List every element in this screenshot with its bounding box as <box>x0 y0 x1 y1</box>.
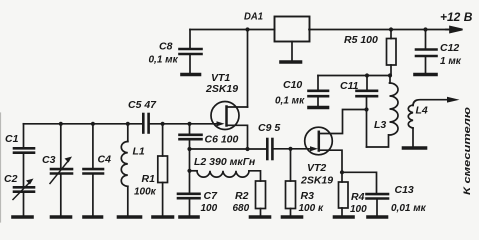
trimmer capacitor C3 <box>50 124 72 215</box>
ground (C2) <box>13 215 32 219</box>
capacitor C13 <box>342 172 388 215</box>
svg-text:R3: R3 <box>301 190 315 202</box>
ground (DA1) <box>281 60 301 64</box>
wire tank bottom <box>367 135 389 147</box>
wire source line <box>190 148 268 150</box>
node junction C11 top <box>365 73 369 77</box>
svg-text:DA1: DA1 <box>244 11 263 23</box>
node junction R3 top <box>288 147 292 151</box>
node junction VT1 source <box>245 147 249 151</box>
svg-text:С5 47: С5 47 <box>128 99 157 111</box>
svg-text:R4: R4 <box>351 191 365 203</box>
label C7 100 <box>201 190 219 214</box>
capacitor C7 <box>178 194 200 215</box>
svg-text:С7: С7 <box>204 190 219 202</box>
node junction C4 <box>91 122 95 126</box>
svg-text:L1: L1 <box>133 146 145 158</box>
label R2 680 <box>233 190 250 214</box>
capacitor C12 <box>416 30 437 73</box>
label R4 100 <box>350 191 367 215</box>
label R1 100k <box>134 173 157 198</box>
node junction VT1 drain / top bus <box>245 27 249 31</box>
node junction R5 top <box>389 27 393 31</box>
wire C7 branch vertical <box>189 149 191 193</box>
svg-text:+12 В: +12 В <box>440 10 473 24</box>
capacitor C4 <box>84 124 104 215</box>
capacitor C11 <box>357 76 378 148</box>
svg-text:L3: L3 <box>374 119 386 131</box>
label C8 value <box>149 41 179 66</box>
svg-text:L4: L4 <box>416 105 428 117</box>
svg-text:С4: С4 <box>98 154 112 166</box>
svg-text:С10: С10 <box>283 79 302 91</box>
node junction L1 <box>126 122 130 126</box>
ground (L4) <box>404 146 426 150</box>
svg-text:L2 390 мкГн: L2 390 мкГн <box>194 156 256 168</box>
wire drain node line <box>318 75 390 77</box>
wire top supply bus right segment <box>309 29 452 31</box>
inductor L3 <box>390 76 399 136</box>
svg-text:0,1 мк: 0,1 мк <box>275 96 305 107</box>
transistor VT2 2SK19 <box>305 110 367 173</box>
capacitor C5 <box>143 114 148 133</box>
capacitor C6 <box>180 124 202 149</box>
node junction C6 top <box>187 122 191 126</box>
ground (C10) <box>309 106 328 110</box>
node junction R4 top <box>340 170 344 174</box>
svg-text:0,1 мк: 0,1 мк <box>149 55 179 66</box>
wire VT1 drain vertical <box>247 30 249 108</box>
IC DA1 <box>275 17 310 42</box>
svg-text:R5 100: R5 100 <box>344 34 378 46</box>
resistor R2 <box>256 181 266 215</box>
ground (R4) <box>335 215 354 219</box>
ground (R2) <box>251 215 270 219</box>
svg-text:1 мк: 1 мк <box>440 56 462 67</box>
ground (C7) <box>180 215 198 219</box>
svg-text:100: 100 <box>201 203 218 214</box>
node junction VT2 drain tank <box>364 107 368 111</box>
svg-text:2SK19: 2SK19 <box>300 175 333 187</box>
variable capacitor C2 <box>13 179 34 216</box>
transistor VT1 2SK19 <box>211 102 248 150</box>
svg-text:100 к: 100 к <box>299 203 324 214</box>
resistor R5 <box>387 30 397 76</box>
svg-text:R2: R2 <box>235 190 249 202</box>
capacitor C1 <box>14 124 34 187</box>
ground (C13) <box>368 215 387 219</box>
capacitor C8 <box>180 30 202 73</box>
node junction C12 top <box>423 27 427 31</box>
inductor L2 <box>190 171 261 181</box>
svg-text:R1: R1 <box>142 173 156 185</box>
label VT2 <box>300 162 333 187</box>
ground (C3) <box>52 215 71 219</box>
resistor R3 <box>286 149 296 215</box>
svg-text:К смесителю: К смесителю <box>462 107 473 195</box>
svg-text:С11: С11 <box>340 80 359 92</box>
svg-text:С3: С3 <box>42 154 56 166</box>
svg-text:0,01 мк: 0,01 мк <box>391 203 427 214</box>
scan edge artifact left <box>0 113 2 222</box>
wire main gate bus <box>24 123 144 125</box>
node junction source line left <box>187 147 191 151</box>
node junction L3 top <box>388 73 392 77</box>
label C13 value <box>391 184 427 214</box>
svg-text:С13: С13 <box>395 184 414 196</box>
ground (C12) <box>415 73 436 77</box>
svg-text:С2: С2 <box>4 173 18 185</box>
svg-text:С1: С1 <box>5 133 19 145</box>
svg-text:С6 100: С6 100 <box>205 134 239 146</box>
label C12 value <box>440 42 462 67</box>
wire DA1 ground lead <box>291 42 293 61</box>
svg-text:С12: С12 <box>440 42 459 54</box>
+12V arrow <box>446 27 463 33</box>
svg-text:680: 680 <box>233 203 250 214</box>
label C10 value <box>275 79 305 107</box>
ground (L1) <box>119 215 141 219</box>
label R3 100k <box>299 190 324 214</box>
inductor L4 <box>408 97 459 146</box>
ground (C4) <box>84 215 102 219</box>
svg-text:С9 5: С9 5 <box>258 122 280 134</box>
inductor L1 <box>121 124 128 215</box>
ground (R3) <box>283 215 302 219</box>
svg-text:100: 100 <box>350 204 367 215</box>
svg-text:VT2: VT2 <box>307 162 326 174</box>
ground (R1) <box>153 215 173 219</box>
resistor R4 <box>339 172 349 215</box>
svg-text:2SK19: 2SK19 <box>205 83 238 95</box>
capacitor C10 <box>309 76 329 106</box>
label VT1 <box>205 72 238 95</box>
ground (C8) <box>182 73 200 77</box>
node junction C3 <box>59 122 63 126</box>
wire top supply bus left segment <box>190 29 275 31</box>
svg-text:С8: С8 <box>159 41 173 53</box>
node junction L2 tap <box>187 169 191 173</box>
capacitor C9 <box>267 139 310 159</box>
svg-text:100к: 100к <box>134 187 157 198</box>
resistor R1 <box>158 124 168 215</box>
node junction R1 <box>161 122 165 126</box>
